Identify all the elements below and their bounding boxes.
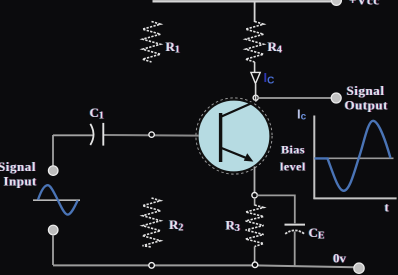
wire: input bottom drop [52,235,54,265]
transistor Q1 [196,98,272,174]
svg-text:Bias: Bias [281,143,305,157]
svg-text:+Vcc: +Vcc [349,0,380,8]
svg-text:0v: 0v [333,251,347,266]
wire: R3 bottom lead [254,247,256,263]
terminal: 0v [354,263,364,273]
wire: emitter node to CE [257,195,295,223]
svg-text:Output: Output [345,97,389,112]
graph bias level line [314,157,393,159]
wire: base [104,134,199,137]
resistor R3 [246,205,264,247]
transistor Q1 emitter stroke [222,148,249,159]
terminal: signal input bottom [48,225,58,235]
wire: R4 top lead [254,1,256,22]
transistor Q1 emitter arrowhead [244,153,254,161]
wire: collector node to transistor [255,95,257,102]
wire: input to C1 [53,134,94,136]
resistor R4 [246,22,264,63]
output sine wave [315,121,391,191]
wire: +Vcc top rail [153,0,333,2]
junction: R2 bottom node [149,263,155,269]
current arrow Ic [251,72,260,83]
capacitor C1 curved plate [90,124,93,145]
terminal: signal input top [48,166,58,176]
junction: base node [149,132,154,137]
svg-text:t: t [385,200,390,215]
transistor Q1 collector stroke [222,102,256,117]
terminal: signal output [331,93,341,103]
junction: emitter ground node [252,262,258,268]
capacitor CE straight plate [285,224,306,226]
graph x-axis [313,197,396,199]
wire: emitter drop [254,167,256,193]
wire: R4 bottom lead [254,62,256,72]
wire: input terminal riser [52,135,54,166]
input sine wave [38,185,78,214]
wire: emitter node to R3 [254,198,256,206]
svg-text:Signal: Signal [347,83,385,98]
svg-text:Signal: Signal [0,159,36,174]
wire: bottom rail [53,265,354,267]
junction: collector node [253,95,258,100]
wire: collector node to output terminal [258,97,331,99]
svg-text:level: level [280,160,306,174]
graph y-axis [313,116,315,200]
capacitor C1 straight plate [102,123,104,146]
input sine axis [33,199,80,201]
terminal: +Vcc [331,0,341,5]
transistor Q1 base bar [219,113,222,162]
resistor R2 [143,198,161,247]
capacitor CE curved plate [285,230,304,234]
wire: CE bottom lead [294,232,296,266]
resistor R1 [143,22,161,63]
svg-text:Input: Input [4,173,38,188]
junction: emitter node [252,193,257,198]
wire: arrow to collector node [255,84,257,95]
